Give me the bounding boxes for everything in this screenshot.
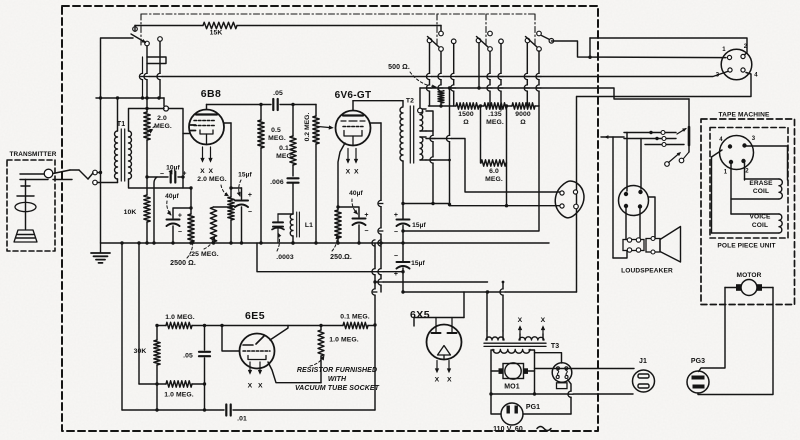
label 1.0MEG b	[164, 392, 194, 399]
svg-text:MEG.: MEG.	[485, 176, 503, 183]
grid arrow 6V6	[318, 126, 333, 129]
wire line pin3	[144, 72, 728, 77]
svg-text:1: 1	[724, 170, 728, 176]
label 1500	[458, 111, 474, 126]
label .135	[486, 111, 504, 126]
svg-text:MEG.: MEG.	[276, 153, 294, 160]
socket SO1	[555, 181, 584, 218]
node	[489, 392, 572, 395]
wire sw2a	[430, 43, 442, 106]
switch SW2a	[427, 31, 443, 51]
svg-text:6E5: 6E5	[245, 310, 265, 322]
svg-text:T2: T2	[406, 98, 414, 105]
svg-text:6B8: 6B8	[201, 88, 221, 100]
svg-text:+: +	[394, 212, 398, 219]
svg-text:X: X	[354, 169, 359, 176]
pointer	[169, 170, 172, 174]
svg-text:.25 MEG.: .25 MEG.	[189, 251, 219, 258]
node	[401, 202, 434, 205]
svg-text:X: X	[248, 383, 253, 390]
capacitor C .05 b	[199, 352, 210, 356]
svg-text:.01: .01	[237, 416, 247, 423]
pointer	[150, 126, 156, 133]
label T3	[551, 343, 559, 350]
svg-text:Ω: Ω	[463, 119, 469, 126]
node	[220, 324, 223, 327]
node	[649, 131, 658, 140]
label X X 6X5	[435, 377, 452, 384]
connector speaker plug	[619, 186, 649, 216]
wire B+ switched y25	[135, 25, 441, 27]
motor MO1	[499, 363, 529, 379]
label PG1	[526, 404, 540, 411]
svg-text:1.0 MEG.: 1.0 MEG.	[165, 314, 195, 321]
svg-text:4: 4	[719, 137, 723, 143]
polarity	[394, 212, 398, 236]
dash-dot gang link	[534, 14, 536, 47]
wire	[320, 326, 322, 383]
resistor R 1.0MEG b	[166, 381, 192, 387]
wire rail x403	[402, 204, 404, 293]
jack J1	[633, 370, 655, 392]
svg-text:RESISTOR FURNISHED: RESISTOR FURNISHED	[297, 367, 377, 374]
node	[189, 186, 192, 209]
wire rail x204	[204, 326, 206, 411]
wire	[440, 26, 442, 32]
hop	[139, 73, 456, 79]
label 40uf a	[165, 193, 179, 200]
svg-text:+: +	[248, 192, 252, 199]
wire	[214, 207, 232, 243]
svg-text:10K: 10K	[124, 209, 137, 216]
svg-text:MOTOR: MOTOR	[737, 272, 762, 279]
pointer	[187, 240, 195, 258]
coil L1	[290, 212, 299, 237]
heater leads 6E5	[248, 362, 261, 374]
svg-text:−: −	[248, 209, 252, 216]
wire	[292, 236, 294, 243]
polarity	[248, 192, 252, 216]
wire loop	[491, 393, 633, 395]
label L1	[305, 222, 313, 229]
wire spk feed1	[624, 131, 676, 135]
svg-text:1.0 MEG.: 1.0 MEG.	[329, 337, 359, 344]
svg-text:Ω: Ω	[520, 119, 526, 126]
switch SW2c	[525, 31, 541, 51]
tube U4 6X5	[427, 318, 462, 360]
label 10K	[124, 209, 137, 216]
label 6E5	[245, 310, 265, 322]
svg-text:2.0: 2.0	[157, 115, 167, 122]
wire S to PG1	[568, 380, 574, 414]
resistor R 30K	[154, 340, 160, 365]
hop	[500, 289, 505, 295]
resistor R 0.2MEG	[313, 116, 319, 144]
svg-text:VOICE: VOICE	[749, 214, 771, 221]
svg-text:6V6-GT: 6V6-GT	[335, 90, 372, 101]
svg-text:2.0 MEG.: 2.0 MEG.	[197, 176, 227, 183]
transformer T2	[400, 106, 426, 163]
heater leads 6V6	[346, 149, 357, 164]
wire PG3 motor	[698, 288, 773, 395]
wire T3 HV legs	[487, 282, 503, 331]
pole piece dashed box	[710, 128, 788, 239]
hop	[378, 200, 384, 285]
wire screen rail x231	[230, 123, 232, 243]
wire line y88	[420, 88, 689, 99]
wire line pin2	[590, 38, 747, 55]
plug PG1	[501, 403, 523, 425]
svg-text:15µf: 15µf	[238, 172, 252, 179]
svg-text:−: −	[178, 229, 182, 236]
label 6B8	[201, 88, 221, 100]
wire	[241, 207, 243, 243]
resistor R 250	[335, 210, 341, 238]
resistor R 10K	[144, 195, 150, 222]
pointer	[352, 199, 358, 214]
wire rail x293	[292, 105, 294, 177]
wire jack tip	[97, 172, 100, 174]
wire rail x122	[121, 243, 123, 410]
tube U3 6E5	[240, 334, 275, 369]
wire	[231, 188, 242, 199]
label 0.5MEG	[268, 127, 286, 142]
wire sw2b	[479, 43, 490, 106]
label 15uf c	[411, 260, 425, 267]
node	[448, 86, 481, 89]
tube U2 6V6-GT	[336, 101, 371, 146]
node	[291, 241, 294, 244]
resistor R 1.0MEG a	[166, 322, 192, 328]
svg-text:0.5: 0.5	[271, 127, 281, 134]
wire 40uf bracket	[173, 208, 191, 218]
node	[291, 103, 294, 106]
svg-text:1500: 1500	[458, 111, 474, 118]
resistor R 2.0MEG b	[228, 197, 234, 220]
node	[448, 159, 451, 162]
resistor R 6.0MEG	[481, 160, 506, 166]
node bus	[145, 241, 404, 244]
label 6V6-GT	[335, 90, 372, 101]
resistor R .25MEG	[210, 207, 216, 242]
resistor R 2.0MEG grid	[144, 112, 150, 140]
node top bus	[99, 96, 161, 99]
tube U1 6B8	[183, 105, 231, 145]
label 15uf b	[412, 222, 426, 229]
svg-text:0.1 MEG.: 0.1 MEG.	[340, 314, 370, 321]
wire jack ring to T1	[97, 182, 117, 184]
svg-text:15µf: 15µf	[411, 260, 425, 267]
svg-text:3: 3	[716, 73, 720, 79]
label 6.0MEG	[485, 168, 503, 183]
wire	[280, 104, 316, 106]
polarity	[364, 212, 368, 235]
capacitor C .05	[273, 99, 277, 110]
label X X T3	[518, 317, 546, 324]
wire bank	[429, 104, 540, 107]
socket S wire	[535, 353, 562, 363]
label POLE PIECE UNIT	[717, 243, 775, 250]
svg-text:J1: J1	[639, 358, 647, 365]
svg-text:X: X	[541, 317, 546, 324]
svg-text:WITH: WITH	[328, 376, 347, 383]
dash-dot gang line	[140, 14, 142, 46]
transmitter label	[10, 151, 57, 158]
wire y384	[139, 383, 205, 385]
resistor R 15K	[203, 22, 237, 28]
svg-text:T3: T3	[551, 343, 559, 350]
wire top bus y98	[96, 98, 164, 106]
wire sw2c	[527, 43, 539, 106]
svg-text:+: +	[394, 271, 398, 278]
svg-text:X: X	[447, 377, 452, 384]
wire rail y231	[0, 0, 1, 1]
wire left rail	[101, 38, 134, 243]
capacitor C 40uF a	[167, 220, 180, 227]
capacitor C 15uF b	[397, 220, 410, 227]
resistor R 0.1MEG	[290, 136, 296, 165]
transformer T1	[115, 98, 192, 188]
wire x154	[154, 177, 157, 243]
svg-text:110 V. 60: 110 V. 60	[493, 426, 523, 433]
wire tape pins	[712, 146, 788, 233]
hop	[446, 135, 452, 141]
label MOTOR	[737, 272, 762, 279]
svg-text:L1: L1	[305, 222, 313, 229]
svg-text:LOUDSPEAKER: LOUDSPEAKER	[621, 268, 673, 275]
wire T1 right top	[129, 109, 165, 132]
wire	[336, 205, 359, 217]
node	[479, 104, 508, 207]
wire rail x316	[315, 105, 317, 244]
wire 6E5 cathode	[268, 362, 321, 383]
svg-text:TRANSMITTER: TRANSMITTER	[10, 151, 57, 158]
heater leads 6B8	[201, 147, 212, 162]
svg-text:X: X	[208, 168, 213, 175]
label 40uf b	[349, 190, 363, 197]
label .25MEG	[189, 251, 219, 258]
label .006	[270, 179, 284, 186]
wire	[172, 226, 174, 243]
capacitor C .006	[288, 178, 299, 182]
svg-text:−: −	[394, 229, 398, 236]
label 2.0MEG b	[197, 176, 227, 183]
node	[120, 241, 123, 244]
svg-text:X: X	[346, 169, 351, 176]
wire	[358, 225, 360, 243]
wire spk right	[649, 197, 656, 239]
tape machine dashed box	[701, 119, 795, 305]
wire spk stub	[601, 136, 624, 139]
resistor R 9000	[512, 103, 535, 109]
svg-text:X: X	[518, 317, 523, 324]
node	[373, 241, 382, 326]
pointer	[277, 233, 281, 251]
hop	[372, 269, 378, 296]
wire cathode	[338, 143, 345, 243]
capacitor C .01	[226, 405, 230, 416]
svg-text:2: 2	[744, 44, 748, 50]
label 15uf a	[238, 172, 252, 179]
svg-text:X: X	[258, 383, 263, 390]
input jack J	[70, 170, 97, 185]
capacitor C 40uF b	[353, 219, 366, 226]
motor M	[736, 280, 762, 296]
amplifier chassis dashed border	[62, 6, 598, 431]
svg-text:+: +	[178, 213, 182, 220]
wire line pin4	[577, 73, 751, 97]
svg-text:.135: .135	[488, 111, 502, 118]
node	[145, 107, 148, 110]
resistor R 0.1MEG b	[343, 322, 368, 328]
transformer T3	[484, 331, 546, 353]
node	[486, 281, 505, 294]
label MO1	[504, 384, 519, 391]
capacitor C 15uF a	[235, 201, 248, 208]
wire rail y292	[403, 291, 577, 293]
wire tap1	[426, 111, 433, 204]
resistor R 2500	[188, 214, 194, 242]
wire	[278, 213, 293, 215]
wire step	[147, 57, 166, 64]
hops bus	[372, 240, 384, 246]
wire rail y271	[257, 243, 403, 272]
wire rail x139	[138, 243, 140, 384]
switch SW1	[131, 26, 162, 99]
svg-text:10µf: 10µf	[166, 165, 180, 172]
hop	[426, 73, 541, 91]
heater leads 6X5	[435, 361, 450, 373]
wire bottom bus	[122, 409, 375, 411]
wire T3 primary right	[529, 350, 535, 394]
svg-text:3: 3	[752, 136, 756, 142]
plug PG3	[687, 371, 709, 393]
dash-dot gang link	[485, 14, 487, 47]
label 9000	[515, 111, 531, 126]
resistor R .135MEG	[484, 103, 507, 109]
svg-text:0.2 MEG.: 0.2 MEG.	[304, 113, 311, 142]
loudspeaker	[623, 227, 681, 263]
wire	[688, 99, 690, 127]
wire socket feed	[576, 97, 578, 293]
pin numbers P1	[716, 44, 759, 79]
pin numbers tape plug	[719, 136, 756, 176]
polarity	[178, 213, 182, 237]
wire rail x381	[380, 123, 382, 292]
svg-text:15µf: 15µf	[412, 222, 426, 229]
wire rail x191	[190, 188, 192, 214]
wire rail y282	[375, 281, 488, 283]
coil voice	[712, 214, 783, 233]
svg-text:.006: .006	[270, 179, 284, 186]
label 0.1MEG b	[340, 314, 370, 321]
svg-text:VACUUM TUBE SOCKET: VACUUM TUBE SOCKET	[295, 385, 380, 392]
label T1	[117, 121, 125, 128]
svg-text:15K: 15K	[210, 30, 223, 37]
wire heater bracket	[414, 292, 464, 326]
wire rail x157	[156, 326, 158, 411]
wire	[190, 242, 192, 243]
node	[137, 241, 140, 244]
transmitter dashed box	[7, 160, 55, 251]
wire T2 primary bottom	[402, 161, 404, 204]
ground	[91, 243, 110, 263]
wire 10uf left	[147, 176, 168, 178]
label 110V	[493, 426, 551, 433]
label ERASE COIL	[749, 180, 773, 195]
wire line pin1	[551, 41, 726, 58]
wire ground bus	[101, 242, 549, 244]
wire T2 tap up	[418, 88, 423, 113]
svg-text:PG1: PG1	[526, 404, 540, 411]
svg-text:−: −	[160, 171, 164, 178]
jack bar	[677, 127, 689, 145]
node	[99, 171, 102, 174]
wire rail x261	[260, 105, 262, 244]
label 2500	[170, 260, 196, 267]
svg-text:40µf: 40µf	[165, 193, 179, 200]
switch SW2b extra	[499, 39, 504, 110]
wire plate y104	[207, 104, 272, 106]
plug PG1 loop	[491, 394, 571, 414]
node	[145, 175, 148, 178]
wire screen 6V6	[371, 122, 382, 124]
switch SW2b	[476, 31, 492, 51]
node	[373, 229, 489, 293]
svg-text:POLE PIECE UNIT: POLE PIECE UNIT	[717, 243, 775, 250]
svg-text:9000: 9000	[515, 111, 531, 118]
pointer	[310, 356, 324, 366]
pointer	[237, 180, 241, 196]
svg-text:COIL: COIL	[752, 222, 768, 229]
wire 10uf right	[178, 176, 183, 178]
svg-text:4: 4	[754, 73, 758, 79]
wire plate 6V6	[353, 101, 403, 106]
label 6X5	[410, 309, 430, 321]
svg-text:MEG.: MEG.	[486, 119, 504, 126]
wire 6E5 plate	[270, 326, 288, 341]
wire grid line y325	[157, 325, 375, 327]
svg-text:250.Ω.: 250.Ω.	[330, 254, 352, 261]
hop	[487, 73, 503, 91]
resistor R 1500	[456, 103, 479, 109]
socket S	[552, 363, 572, 389]
label .01	[237, 416, 247, 423]
wire tap2b	[426, 159, 450, 161]
wire tap5	[449, 88, 451, 206]
capacitor C .0003	[272, 214, 284, 243]
wire	[589, 38, 591, 57]
node	[588, 56, 591, 59]
svg-text:500 Ω.: 500 Ω.	[388, 64, 410, 71]
label 1.0MEG c	[329, 337, 359, 344]
svg-text:COIL: COIL	[753, 188, 769, 195]
switch SW3	[665, 145, 689, 166]
svg-text:.05: .05	[183, 353, 193, 360]
dash-dot gang link	[436, 14, 438, 47]
switch SW2a extra	[451, 39, 456, 106]
label LOUDSPEAKER	[621, 268, 673, 275]
label 0.2MEG	[304, 113, 311, 142]
capacitor C 10uF	[171, 172, 176, 183]
pointer	[167, 201, 171, 215]
svg-text:TAPE MACHINE: TAPE MACHINE	[719, 112, 770, 119]
pointer	[410, 72, 436, 88]
svg-text:6.0: 6.0	[489, 168, 499, 175]
hop	[430, 135, 436, 163]
wire motor leads	[725, 287, 773, 289]
svg-text:0.1: 0.1	[279, 145, 289, 152]
